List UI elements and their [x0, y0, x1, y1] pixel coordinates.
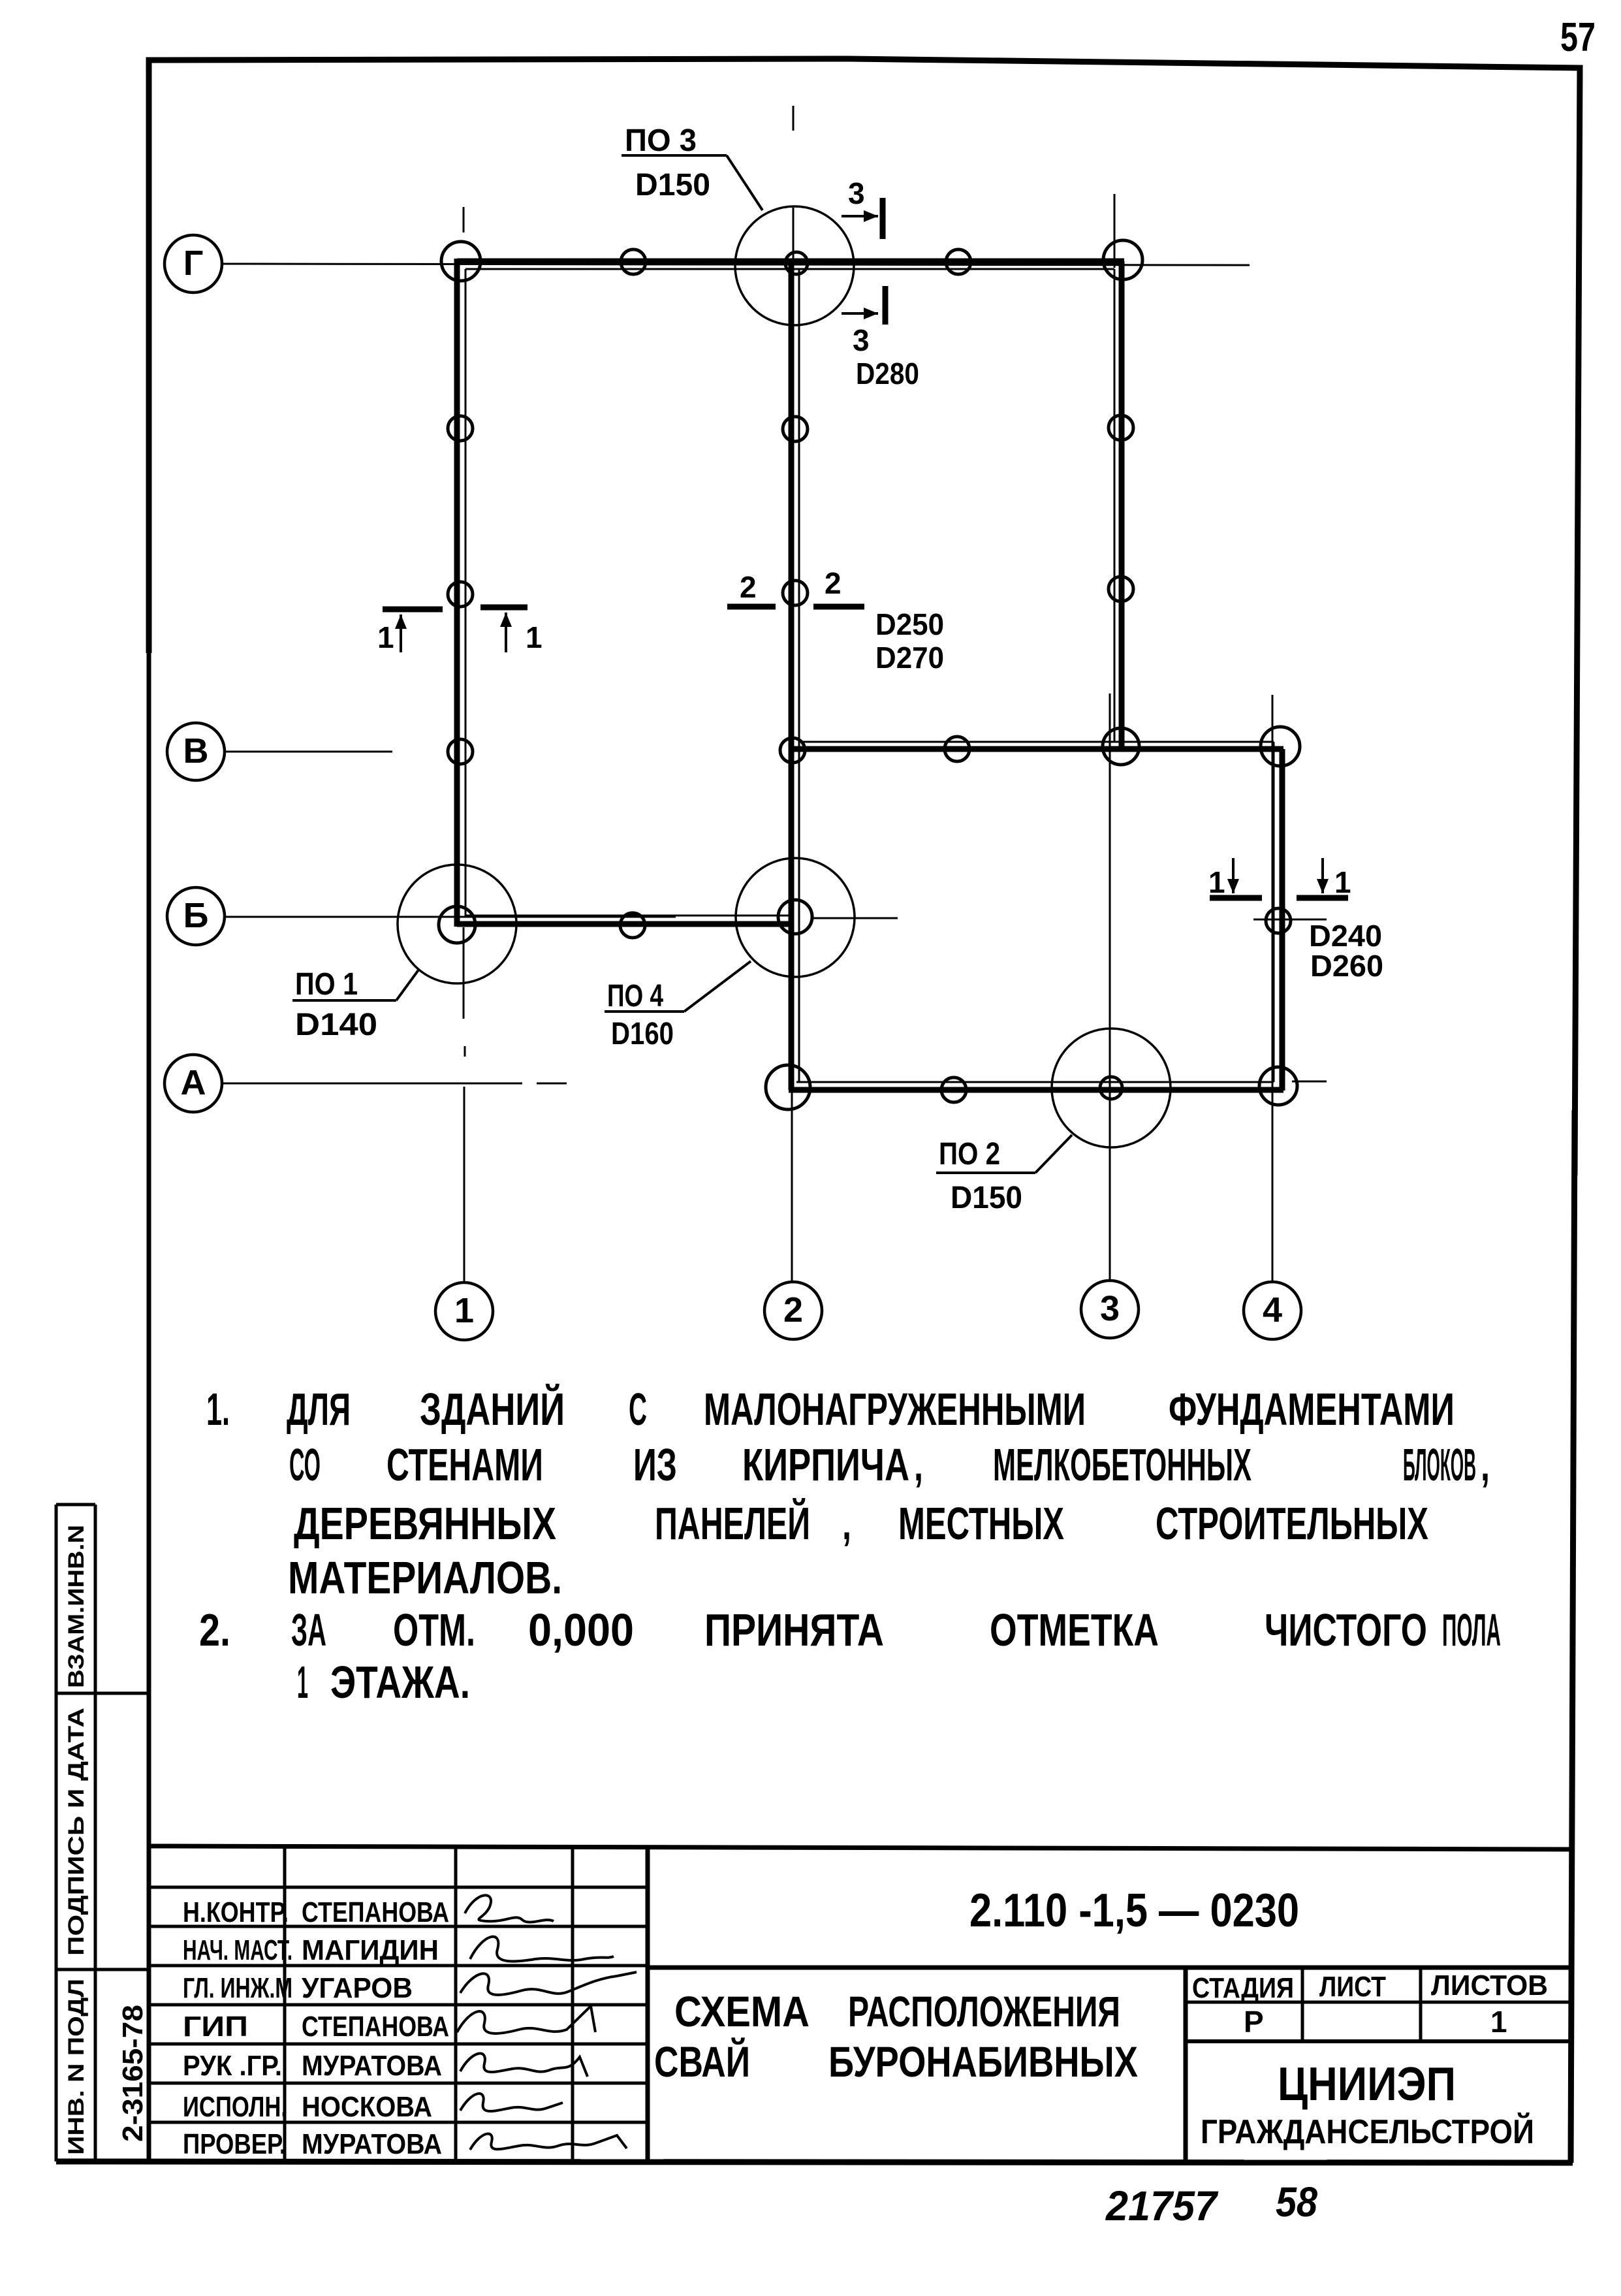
pile circle at по2 centre — [1100, 1077, 1122, 1099]
svg-text:D150: D150 — [635, 168, 710, 202]
svg-text:D240: D240 — [1309, 919, 1382, 953]
leader по2 — [936, 1172, 1035, 1174]
section mark 3-3 lower — [842, 312, 878, 315]
svg-text:ОТМЕТКА: ОТМЕТКА — [990, 1604, 1159, 1655]
pile circle 6 — [783, 417, 808, 441]
svg-text:ВЗАМ.ИНВ.N: ВЗАМ.ИНВ.N — [64, 1525, 89, 1688]
svg-text:МУРАТОВА: МУРАТОВА — [302, 2050, 442, 2082]
pile circle 7 — [783, 581, 808, 605]
grid bubble 1 — [435, 1283, 493, 1340]
svg-text:ГЛ. ИНЖ.М: ГЛ. ИНЖ.М — [183, 1972, 292, 2004]
pile circle 1 — [621, 249, 646, 274]
corner circle В/4 — [1261, 727, 1300, 766]
svg-text:2-3165-78: 2-3165-78 — [117, 2005, 149, 2142]
leader по4 — [605, 1010, 684, 1013]
svg-text:0,000: 0,000 — [528, 1604, 634, 1655]
centerline column 2 — [793, 106, 795, 131]
svg-text:МАГИДИН: МАГИДИН — [302, 1934, 439, 1966]
axis line А — [221, 1083, 522, 1085]
svg-text:1.: 1. — [206, 1384, 230, 1435]
grid bubble 3 — [1081, 1281, 1139, 1338]
svg-text:1: 1 — [526, 620, 543, 654]
svg-text:3: 3 — [848, 176, 865, 210]
axis line В — [225, 751, 392, 753]
corner circle Г/1 — [441, 242, 480, 281]
svg-text:ЧИСТОГО: ЧИСТОГО — [1265, 1604, 1427, 1655]
svg-text:3: 3 — [853, 323, 870, 357]
svg-text:D250: D250 — [875, 607, 944, 641]
svg-text:МЕЛКОБЕТОННЫХ: МЕЛКОБЕТОННЫХ — [993, 1439, 1251, 1490]
signatures — [457, 1895, 637, 2150]
corner circle А/4 — [1259, 1067, 1297, 1105]
svg-text:СТЕПАНОВА: СТЕПАНОВА — [302, 2011, 449, 2043]
wall middle (column 2) — [789, 259, 795, 1090]
svg-text:ГРАЖДАНСЕЛЬСТРОЙ: ГРАЖДАНСЕЛЬСТРОЙ — [1201, 2113, 1534, 2151]
svg-text:21757: 21757 — [1105, 2182, 1219, 2229]
walls thick lines — [457, 259, 1283, 1091]
section mark 1-1 (right wall) right — [1297, 895, 1348, 901]
svg-text:НАЧ. МАСТ.: НАЧ. МАСТ. — [183, 1934, 292, 1966]
svg-text:СО: СО — [289, 1439, 321, 1490]
pile circle at по3 centre — [785, 252, 808, 274]
svg-text:2.: 2. — [199, 1604, 230, 1655]
svg-text:ИЗ: ИЗ — [633, 1439, 677, 1490]
pile circle 2 — [946, 249, 971, 274]
svg-text:58: 58 — [1276, 2178, 1317, 2225]
pile circle 9 — [1109, 577, 1133, 601]
svg-text:1: 1 — [1334, 865, 1351, 899]
svg-text:D140: D140 — [295, 1008, 377, 1042]
big circle по4 — [736, 858, 855, 977]
grid bubble 2 — [764, 1282, 822, 1339]
pile circle 11 — [945, 737, 969, 761]
svg-text:3: 3 — [1100, 1289, 1120, 1328]
pile circle 5 — [448, 739, 473, 764]
svg-text:D260: D260 — [1310, 949, 1383, 983]
svg-text:МУРАТОВА: МУРАТОВА — [302, 2128, 442, 2160]
svg-text:В: В — [183, 731, 209, 771]
svg-text:2: 2 — [783, 1290, 803, 1330]
svg-text:ПРИНЯТА: ПРИНЯТА — [704, 1604, 884, 1655]
grid bubble 4 — [1244, 1282, 1301, 1339]
corner circle А/2 — [766, 1065, 810, 1109]
svg-text:2: 2 — [825, 566, 842, 600]
svg-text:А: А — [181, 1063, 206, 1102]
wall axis В horizontal — [791, 746, 1283, 752]
svg-text:ЭТАЖА.: ЭТАЖА. — [330, 1657, 470, 1708]
left attribute strips — [56, 1505, 149, 2161]
title block lines — [150, 1846, 1573, 2161]
axis line Б — [225, 916, 676, 918]
svg-text:,: , — [914, 1439, 923, 1490]
svg-text:КИРПИЧА: КИРПИЧА — [742, 1439, 909, 1490]
pile circle 13 — [1266, 908, 1291, 933]
svg-text:Б: Б — [183, 896, 209, 935]
big circle по3 — [735, 206, 854, 325]
svg-text:ЗДАНИЙ: ЗДАНИЙ — [420, 1383, 565, 1435]
svg-text:2.110 -1,5 — 0230: 2.110 -1,5 — 0230 — [969, 1885, 1299, 1937]
svg-text:ПРОВЕР.: ПРОВЕР. — [183, 2128, 286, 2160]
svg-text:ПОДПИСЬ И ДАТА: ПОДПИСЬ И ДАТА — [64, 1708, 89, 1956]
grid bubble Г — [165, 235, 222, 293]
centerline column 4 — [1272, 695, 1274, 1282]
svg-text:РУК .ГР.: РУК .ГР. — [183, 2050, 282, 2082]
svg-text:РАСПОЛОЖЕНИЯ: РАСПОЛОЖЕНИЯ — [848, 1987, 1120, 2035]
svg-text:ГИП: ГИП — [183, 2011, 248, 2043]
svg-text:ЦНИИЭП: ЦНИИЭП — [1278, 2058, 1456, 2111]
svg-text:БУРОНАБИВНЫХ: БУРОНАБИВНЫХ — [828, 2037, 1138, 2086]
wall top (axis Г) — [457, 259, 1124, 264]
svg-text:D280: D280 — [856, 357, 919, 391]
svg-text:МАТЕРИАЛОВ.: МАТЕРИАЛОВ. — [288, 1552, 562, 1603]
big circle по1 — [398, 865, 516, 983]
corner circle Г/2a — [1103, 240, 1142, 279]
leader по1 — [292, 999, 396, 1002]
svg-text:МЕСТНЫХ: МЕСТНЫХ — [898, 1498, 1064, 1549]
svg-text:ЛИСТОВ: ЛИСТОВ — [1431, 1969, 1548, 2001]
svg-text:57: 57 — [1560, 15, 1596, 60]
svg-text:1: 1 — [297, 1657, 308, 1708]
svg-text:СХЕМА: СХЕМА — [674, 1987, 810, 2035]
svg-text:ПОЛА: ПОЛА — [1442, 1604, 1501, 1655]
svg-text:,: , — [842, 1498, 851, 1549]
grid bubble А — [165, 1055, 222, 1112]
centerline column 1 — [463, 207, 465, 232]
svg-text:МАЛОНАГРУЖЕННЫМИ: МАЛОНАГРУЖЕННЫМИ — [704, 1384, 1086, 1435]
svg-text:СТЕПАНОВА: СТЕПАНОВА — [302, 1896, 449, 1928]
pile circle 10 — [620, 913, 645, 938]
svg-text:D160: D160 — [611, 1017, 674, 1051]
section mark 2-2 right bar — [813, 604, 864, 610]
wall axis Б horizontal — [457, 921, 794, 927]
section mark 1-1 (col 1) left — [383, 607, 443, 613]
svg-text:1: 1 — [377, 620, 394, 654]
svg-text:ДЕРЕВЯННЫХ: ДЕРЕВЯННЫХ — [294, 1498, 556, 1549]
svg-text:,: , — [1481, 1439, 1490, 1490]
pile circles — [439, 240, 1300, 1109]
corner circle В/2a junction — [1103, 728, 1139, 765]
svg-text:СТЕНАМИ: СТЕНАМИ — [386, 1439, 543, 1490]
svg-text:1: 1 — [1208, 865, 1225, 899]
svg-text:ПАНЕЛЕЙ: ПАНЕЛЕЙ — [655, 1497, 810, 1549]
pile circle 4 — [448, 582, 473, 607]
grid bubble В — [167, 723, 225, 780]
svg-text:ФУНДАМЕНТАМИ: ФУНДАМЕНТАМИ — [1169, 1384, 1455, 1435]
grid bubble Б — [167, 887, 225, 945]
section mark 3-3 upper — [842, 215, 878, 217]
pile circle 12 — [780, 738, 805, 763]
pile circle at по1 centre — [439, 906, 475, 943]
svg-text:D150: D150 — [951, 1181, 1022, 1215]
svg-text:НОСКОВА: НОСКОВА — [302, 2091, 432, 2123]
leader по3 — [622, 154, 727, 157]
pile circle at по4 centre — [778, 900, 812, 934]
svg-text:D270: D270 — [875, 641, 944, 675]
notes text — [199, 1383, 1501, 1708]
centerline column 3 — [1109, 694, 1111, 1281]
svg-text:1: 1 — [1490, 2005, 1507, 2039]
section mark 1-1 (right wall) left — [1210, 895, 1262, 901]
svg-text:ПО 4: ПО 4 — [607, 979, 663, 1013]
svg-text:ОТМ.: ОТМ. — [393, 1604, 475, 1655]
wall axis А horizontal — [789, 1087, 1283, 1093]
svg-text:СТАДИЯ: СТАДИЯ — [1192, 1972, 1294, 2004]
walls thin companion lines — [465, 269, 1274, 1082]
svg-text:БЛОКОВ: БЛОКОВ — [1403, 1439, 1476, 1490]
svg-text:Г: Г — [183, 244, 204, 283]
svg-text:ПО 1: ПО 1 — [295, 967, 358, 1002]
svg-text:ПО 3: ПО 3 — [625, 123, 697, 158]
svg-text:4: 4 — [1263, 1290, 1282, 1330]
svg-text:Н.КОНТР.: Н.КОНТР. — [183, 1896, 289, 1928]
svg-text:УГАРОВ: УГАРОВ — [302, 1972, 413, 2004]
svg-text:С: С — [629, 1384, 647, 1435]
section mark 2-2 left bar — [727, 604, 776, 610]
wall left (column 1) — [454, 259, 460, 927]
svg-text:ИСПОЛН.: ИСПОЛН. — [183, 2091, 287, 2123]
svg-text:ДЛЯ: ДЛЯ — [287, 1384, 351, 1435]
svg-text:ЗА: ЗА — [291, 1604, 326, 1655]
svg-text:Р: Р — [1244, 2005, 1264, 2039]
svg-text:СВАЙ: СВАЙ — [654, 2037, 750, 2086]
svg-text:ПО 2: ПО 2 — [939, 1137, 1000, 1172]
svg-text:ИНВ. N ПОДЛ: ИНВ. N ПОДЛ — [64, 1979, 89, 2155]
svg-text:2: 2 — [740, 570, 757, 604]
svg-text:1: 1 — [454, 1291, 474, 1330]
pile circle 3 — [448, 416, 473, 441]
wall right (column 4) — [1280, 749, 1285, 1091]
stamp role/name rows — [183, 1896, 449, 2160]
pile circle 14 — [941, 1077, 966, 1102]
svg-text:СТРОИТЕЛЬНЫХ: СТРОИТЕЛЬНЫХ — [1156, 1498, 1428, 1549]
big circle по2 — [1052, 1028, 1171, 1147]
section mark 1-1 (col 1) right — [480, 605, 527, 611]
wall column 2a vertical — [1119, 261, 1125, 750]
svg-text:ЛИСТ: ЛИСТ — [1319, 1971, 1386, 2003]
axis line Г — [221, 106, 1327, 1282]
pile circle 8 — [1109, 415, 1133, 440]
